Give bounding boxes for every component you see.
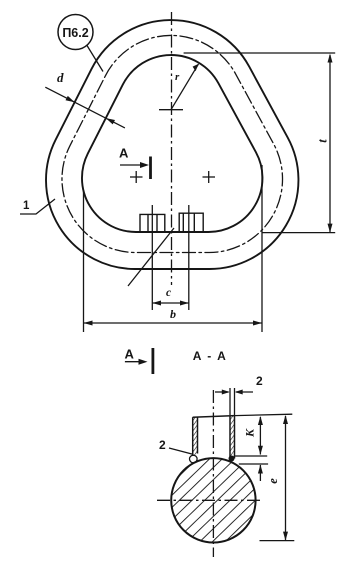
svg-text:1: 1 [23, 200, 30, 212]
overall right dimension [235, 414, 295, 540]
svg-text:A: A [125, 347, 135, 362]
section vertical axis [212, 390, 214, 557]
vertical axis [171, 12, 173, 285]
plus mark right center [203, 171, 216, 183]
svg-text:e: e [266, 478, 280, 484]
plus mark left center [130, 171, 143, 183]
inner contour [82, 55, 262, 232]
outer contour [46, 20, 298, 269]
ball cross-section (hatched) [171, 458, 255, 542]
t dimension [184, 53, 336, 233]
small e dimension ext lines [235, 456, 268, 481]
svg-text:K: K [243, 428, 257, 438]
svg-text:c: c [166, 287, 171, 299]
right sleeve tab (top view) [179, 213, 203, 231]
c dimension [152, 205, 189, 310]
K dimension [259, 417, 261, 455]
2 wall-thickness dimension [215, 388, 253, 415]
top corner center cross [159, 109, 183, 111]
sleeve right wall hatch [230, 416, 235, 457]
svg-text:b: b [170, 307, 176, 321]
tube centerline (dash-dot) [62, 35, 283, 252]
balloon П6.2 [58, 15, 93, 50]
sleeve walls (section) [193, 417, 198, 455]
d dimension [45, 87, 125, 128]
weld bead left [190, 455, 198, 463]
svg-text:d: d [57, 70, 64, 85]
r dimension [171, 64, 199, 110]
left sleeve tab (top view) [140, 214, 165, 231]
svg-text:П6.2: П6.2 [62, 26, 88, 40]
leader line to sleeve tab [128, 228, 174, 286]
svg-text:r: r [175, 71, 180, 83]
svg-text:A: A [119, 146, 129, 161]
svg-text:t: t [316, 139, 330, 143]
svg-text:2: 2 [159, 438, 166, 452]
weld bead right [229, 456, 235, 462]
section horizontal axis [157, 499, 262, 501]
svg-text:2: 2 [256, 374, 263, 388]
svg-text:A - A: A - A [193, 349, 228, 363]
b dimension [84, 165, 263, 332]
